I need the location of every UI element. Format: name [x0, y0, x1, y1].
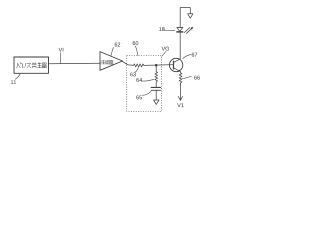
label 11	[11, 80, 16, 84]
label 67	[192, 53, 198, 57]
supply arrow (open triangle) below capacitor	[154, 100, 159, 104]
label 67 leader	[183, 55, 191, 59]
transistor 67 circle	[169, 58, 182, 71]
label 64	[136, 78, 142, 82]
dashed box 60	[127, 56, 162, 112]
resistor 64	[155, 72, 158, 84]
label 65	[136, 95, 142, 99]
emitter wire to resistor 66	[179, 71, 181, 72]
transistor emitter with arrowhead	[174, 68, 181, 72]
wire: amplifier to resistor 63	[123, 62, 134, 66]
wire: resistor 63 to transistor base	[144, 64, 170, 67]
label VG	[162, 47, 170, 51]
supply arrow (open triangle) top right	[188, 14, 193, 18]
light emission arrow shafts	[184, 28, 189, 33]
light emission arrowhead	[190, 27, 193, 30]
transistor base bar	[173, 61, 175, 69]
amplifier text (kanji strokes)	[101, 60, 113, 64]
laser diode 18 anode bar	[177, 27, 183, 29]
wire: capacitor to supply arrow	[155, 90, 157, 100]
junction node	[155, 64, 158, 67]
laser diode 18 triangle	[177, 28, 183, 32]
label V1	[177, 103, 183, 107]
label 18	[159, 27, 164, 31]
label 63	[130, 72, 136, 76]
label 65 leader	[142, 91, 151, 95]
resistor 66	[179, 73, 182, 85]
laser diode 18 cathode bar	[177, 31, 183, 33]
label 60 leader	[135, 46, 138, 55]
pulse generator box text (katakana/kanji strokes)	[17, 63, 47, 69]
label 64 leader	[142, 80, 154, 82]
wire: diode top to supply corner	[180, 8, 190, 28]
transistor base lead	[170, 64, 174, 66]
wire: resistor 64 to capacitor 65	[155, 84, 157, 88]
transistor collector	[174, 59, 181, 63]
label 18 leader	[164, 29, 175, 32]
label VI	[59, 48, 64, 52]
capacitor 65	[151, 86, 160, 88]
node VI leader	[59, 53, 61, 63]
label 62	[115, 43, 121, 47]
label 66	[194, 76, 200, 80]
wire down to V1	[179, 85, 181, 101]
pulse generator box 11	[14, 57, 49, 73]
label 63 leader	[135, 68, 138, 73]
label 60	[133, 41, 139, 45]
node VG dotted leader	[162, 52, 166, 57]
wire: junction down to resistor 64	[155, 65, 157, 72]
label 66 leader	[182, 76, 191, 78]
V1 arrowhead (open)	[178, 97, 182, 101]
resistor 63	[134, 64, 144, 67]
op-amp (amplifier) 62	[100, 52, 123, 71]
label 11 leader	[15, 74, 20, 79]
collector wire up to laser diode	[179, 32, 181, 59]
wire: pulse box to amplifier	[49, 62, 101, 65]
label 62 leader	[111, 48, 114, 56]
